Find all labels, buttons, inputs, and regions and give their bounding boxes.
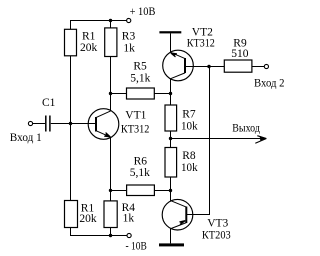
resistor R4	[104, 201, 117, 228]
arrow output	[255, 136, 266, 144]
svg-text:КТ312: КТ312	[187, 38, 215, 50]
terminal input 2	[264, 64, 268, 68]
svg-text:R1: R1	[82, 31, 96, 43]
svg-text:R7: R7	[182, 108, 196, 120]
wire R5 right lead	[154, 93, 170, 95]
resistor R1 bottom	[65, 201, 78, 228]
wire R5 left lead	[111, 93, 127, 95]
svg-text:20k: 20k	[79, 213, 97, 225]
transistor VT3	[162, 199, 193, 230]
resistor R3	[105, 28, 117, 57]
node bottom rail junction	[109, 234, 112, 237]
terminal +10V	[127, 18, 131, 22]
wire top rail +10V	[71, 21, 127, 30]
wire VT2 base lead	[185, 66, 210, 68]
wire R8 bottom to R6/VT3 junction	[170, 177, 172, 201]
resistor R9	[224, 60, 252, 72]
capacitor C1	[46, 116, 50, 132]
node base tie junction	[207, 65, 210, 68]
wire R1 column down to lower R1	[70, 56, 72, 201]
wire output line	[171, 138, 266, 140]
wire VT2 collector down to R5/R7 junction	[170, 79, 172, 94]
wire VT3 emitter to ground	[170, 229, 172, 244]
ground bar below VT3	[159, 243, 184, 246]
node R5 left junction	[109, 92, 112, 95]
terminal input 1	[28, 121, 32, 125]
svg-text:КТ203: КТ203	[202, 229, 231, 241]
chassis bar above VT2	[159, 31, 181, 33]
svg-text:1k: 1k	[123, 213, 135, 225]
wire R6 left lead	[111, 190, 127, 192]
node VT2 collector junction	[169, 92, 172, 95]
svg-text:1k: 1k	[123, 43, 135, 55]
resistor R7	[165, 105, 177, 131]
svg-text:Выход: Выход	[232, 122, 260, 134]
wire base tie to R9	[209, 66, 224, 68]
svg-text:Вход 1: Вход 1	[10, 132, 42, 144]
svg-text:Вход 2: Вход 2	[254, 78, 285, 90]
svg-text:- 10В: - 10В	[126, 240, 148, 252]
node base junction on R1 column	[69, 122, 72, 125]
svg-text:20k: 20k	[80, 42, 98, 54]
wire VT2 collector junction to R7	[170, 94, 172, 106]
resistor R5	[127, 88, 155, 99]
node output junction	[169, 137, 172, 140]
svg-text:510: 510	[231, 48, 249, 60]
node R8/R6/VT3 junction	[169, 189, 172, 192]
node top rail junction	[109, 19, 112, 22]
svg-text:10k: 10k	[181, 121, 198, 133]
svg-text:C1: C1	[42, 97, 56, 109]
wire VT2 emitter to chassis bar	[170, 33, 172, 52]
wire R9 right lead	[252, 66, 264, 68]
wire R3 bottom to VT1 collector	[110, 57, 112, 112]
transistor VT2	[163, 50, 194, 81]
resistor R8	[165, 148, 177, 178]
resistor R1 top	[65, 29, 77, 56]
transistor VT1	[88, 109, 119, 140]
wire VT1 emitter column	[110, 137, 112, 200]
svg-text:R5: R5	[133, 61, 147, 73]
svg-text:5,1k: 5,1k	[130, 167, 150, 179]
svg-text:VT1: VT1	[125, 110, 146, 122]
svg-text:+ 10В: + 10В	[130, 6, 156, 18]
svg-text:5,1k: 5,1k	[130, 73, 150, 85]
node emitter/R6/R4 junction	[109, 189, 112, 192]
wire base tie column down to VT3 base	[186, 67, 209, 215]
wire R7 bottom to R8 top	[170, 131, 172, 148]
wire C1 to VT1 base	[51, 123, 96, 125]
svg-text:VT3: VT3	[207, 218, 228, 230]
svg-text:R3: R3	[122, 31, 136, 43]
wire bottom rail -10V	[71, 228, 128, 236]
svg-text:КТ312: КТ312	[121, 123, 150, 135]
svg-text:R8: R8	[182, 150, 196, 162]
terminal -10V	[127, 233, 131, 237]
svg-text:R6: R6	[134, 156, 148, 168]
wire input to C1	[33, 123, 45, 125]
resistor R6	[127, 185, 155, 196]
svg-text:10k: 10k	[181, 162, 198, 174]
wire R6 right lead	[154, 190, 170, 192]
